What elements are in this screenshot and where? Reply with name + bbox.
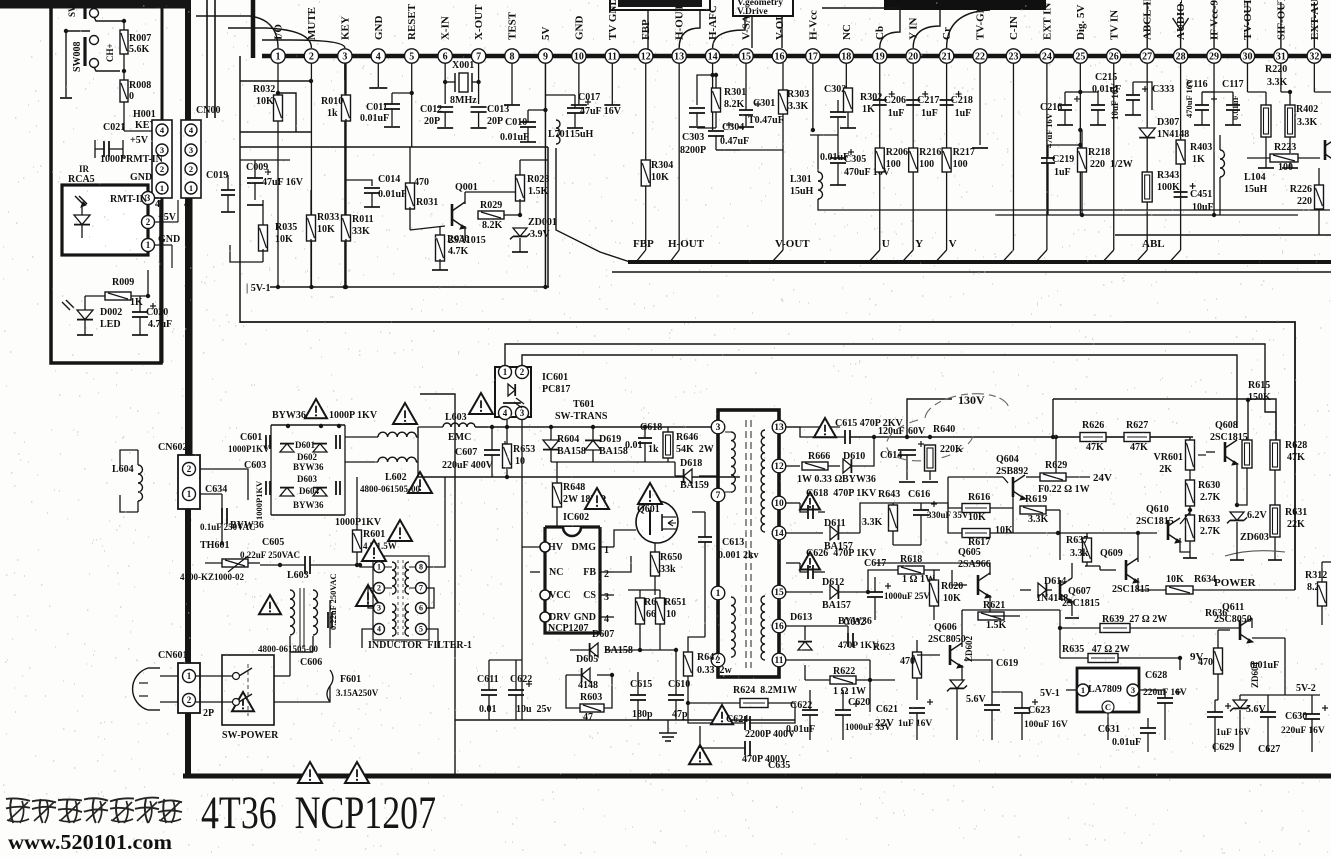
svg-text:+5V: +5V: [158, 212, 177, 223]
svg-text:1k: 1k: [327, 108, 338, 119]
svg-text:TH601: TH601: [200, 540, 229, 551]
svg-text:3: 3: [189, 145, 193, 155]
svg-text:C620: C620: [848, 697, 870, 708]
svg-text:C014: C014: [378, 174, 400, 185]
svg-text:R031: R031: [416, 197, 438, 208]
svg-text:+5V: +5V: [130, 135, 149, 146]
svg-text:3.9V: 3.9V: [530, 229, 551, 240]
svg-text:NC: NC: [841, 24, 853, 40]
svg-text:0.01uF: 0.01uF: [1250, 660, 1279, 671]
svg-text:MUTE: MUTE: [306, 7, 318, 40]
svg-text:F601: F601: [340, 674, 361, 685]
svg-text:1: 1: [377, 563, 381, 572]
svg-text:C218: C218: [951, 95, 973, 106]
svg-text:26: 26: [1109, 51, 1119, 62]
svg-text:180p: 180p: [632, 709, 653, 720]
svg-text:8: 8: [510, 51, 515, 62]
svg-text:C217: C217: [917, 95, 939, 106]
svg-text:C011: C011: [366, 102, 388, 113]
svg-text:24V: 24V: [1093, 472, 1112, 484]
svg-text:3: 3: [1131, 685, 1135, 695]
svg-text:1W 0.33 Ω: 1W 0.33 Ω: [797, 474, 842, 485]
svg-text:Q610: Q610: [1146, 504, 1169, 515]
svg-text:D610: D610: [843, 451, 865, 462]
svg-text:ABL: ABL: [1142, 238, 1165, 250]
svg-text:FB: FB: [583, 567, 596, 578]
svg-text:C333: C333: [1152, 84, 1174, 95]
svg-text:H001: H001: [133, 109, 156, 120]
svg-text:DRV: DRV: [549, 612, 571, 623]
svg-text:1: 1: [187, 489, 192, 499]
svg-text:TV GND: TV GND: [607, 0, 619, 40]
svg-text:IR: IR: [79, 164, 90, 174]
svg-text:32: 32: [1309, 51, 1319, 62]
svg-text:100: 100: [919, 159, 934, 170]
svg-text:R216: R216: [919, 147, 941, 158]
svg-text:1uF 16V: 1uF 16V: [1216, 728, 1250, 738]
svg-text:CH+: CH+: [105, 43, 115, 62]
svg-text:C603: C603: [244, 460, 266, 471]
svg-text:C616: C616: [908, 489, 930, 500]
svg-text:20: 20: [908, 51, 918, 62]
svg-text:15uH: 15uH: [790, 186, 814, 197]
svg-text:47uF 16V: 47uF 16V: [262, 177, 304, 188]
svg-text:10K: 10K: [651, 172, 669, 183]
svg-text:C021: C021: [103, 122, 125, 133]
svg-text:2: 2: [520, 367, 525, 377]
svg-text:100: 100: [886, 159, 901, 170]
svg-text:INDUCTOR FILTER-1: INDUCTOR FILTER-1: [368, 640, 472, 651]
svg-text:150K: 150K: [1248, 392, 1271, 403]
svg-text:3: 3: [377, 604, 381, 613]
svg-text:1: 1: [189, 183, 193, 193]
svg-text:10: 10: [666, 609, 676, 620]
svg-text:C206: C206: [884, 95, 906, 106]
svg-text:Q605: Q605: [958, 547, 981, 558]
svg-text:16: 16: [774, 622, 784, 632]
svg-text:20P: 20P: [424, 116, 440, 127]
svg-text:3.3K: 3.3K: [1028, 514, 1049, 525]
svg-text:R633: R633: [1198, 514, 1220, 525]
svg-text:13: 13: [674, 51, 684, 62]
svg-text:VR601: VR601: [1154, 452, 1183, 463]
svg-text:4T36 NCP1207: 4T36 NCP1207: [201, 787, 436, 839]
svg-text:Q611: Q611: [1222, 602, 1244, 613]
svg-text:C117: C117: [1222, 79, 1244, 90]
svg-text:TV IN: TV IN: [1108, 10, 1120, 40]
svg-text:R403: R403: [1190, 142, 1212, 153]
svg-text:C010: C010: [505, 117, 527, 128]
svg-text:C615: C615: [630, 679, 652, 690]
svg-text:T0.47uF: T0.47uF: [748, 115, 784, 126]
svg-text:1: 1: [1081, 685, 1085, 695]
svg-text:100uF 16V: 100uF 16V: [1024, 720, 1068, 730]
svg-text:Cb: Cb: [874, 26, 886, 40]
svg-text:D611: D611: [824, 518, 846, 529]
svg-text:C606: C606: [300, 657, 322, 668]
svg-text:C: C: [1105, 702, 1111, 712]
svg-text:C301: C301: [753, 98, 775, 109]
svg-text:D618: D618: [680, 458, 702, 469]
svg-text:BYW36: BYW36: [293, 462, 324, 472]
svg-text:3.3K: 3.3K: [1267, 77, 1288, 88]
svg-text:Q607: Q607: [1068, 586, 1091, 597]
svg-text:C605: C605: [262, 537, 284, 548]
svg-text:8.2K: 8.2K: [482, 220, 503, 231]
svg-text:C610: C610: [668, 679, 690, 690]
svg-text:4: 4: [155, 199, 160, 210]
svg-text:10K: 10K: [968, 512, 986, 523]
svg-text:4100-KZ1000-02: 4100-KZ1000-02: [180, 572, 244, 582]
svg-text:220uF 400V: 220uF 400V: [442, 460, 494, 471]
svg-text:RESET: RESET: [406, 3, 418, 40]
svg-text:R301: R301: [724, 87, 746, 98]
svg-text:47: 47: [583, 712, 593, 723]
svg-text:BA157: BA157: [822, 600, 851, 611]
svg-text:BA158: BA158: [557, 446, 586, 457]
svg-text:0.22uF 250VAC: 0.22uF 250VAC: [328, 573, 338, 630]
svg-text:R007: R007: [129, 33, 151, 44]
svg-text:C303: C303: [682, 132, 704, 143]
svg-text:3.3K: 3.3K: [788, 101, 809, 112]
svg-text:47uF 16V: 47uF 16V: [580, 106, 622, 117]
svg-text:10K: 10K: [317, 224, 335, 235]
svg-text:R217: R217: [953, 147, 975, 158]
svg-text:R304: R304: [651, 160, 673, 171]
svg-text:1: 1: [187, 671, 192, 681]
svg-text:R303: R303: [787, 89, 809, 100]
svg-text:Q604: Q604: [996, 454, 1019, 465]
svg-text:220 1/2W: 220 1/2W: [1090, 159, 1133, 170]
svg-text:0: 0: [129, 91, 134, 102]
svg-text:NC: NC: [549, 567, 563, 578]
svg-text:5V-2: 5V-2: [1296, 683, 1316, 694]
svg-text:3.15A250V: 3.15A250V: [336, 688, 379, 698]
svg-text:R223: R223: [1274, 142, 1296, 153]
svg-text:IC602: IC602: [563, 512, 589, 523]
svg-text:3.3k: 3.3k: [1070, 548, 1089, 559]
svg-text:220K: 220K: [940, 444, 963, 455]
svg-text:RCA5: RCA5: [68, 174, 95, 185]
svg-text:47p: 47p: [672, 709, 688, 720]
svg-text:Q608: Q608: [1215, 420, 1238, 431]
svg-text:10K: 10K: [1166, 574, 1184, 585]
svg-text:R616: R616: [968, 492, 990, 503]
svg-text:22: 22: [975, 51, 985, 62]
svg-text:D619: D619: [599, 434, 621, 445]
svg-text:R615: R615: [1248, 380, 1270, 391]
svg-text:R653: R653: [513, 444, 535, 455]
svg-text:30: 30: [1242, 51, 1252, 62]
svg-text:4: 4: [377, 625, 381, 634]
svg-text:2SC8050: 2SC8050: [1214, 614, 1252, 625]
svg-text:TEST: TEST: [507, 11, 519, 40]
svg-text:15uH: 15uH: [1244, 184, 1268, 195]
svg-text:L104: L104: [1244, 172, 1266, 183]
svg-text:GND: GND: [574, 612, 596, 623]
svg-text:8200P: 8200P: [680, 145, 706, 156]
svg-text:BYW36: BYW36: [230, 520, 264, 531]
svg-text:1uF 16V: 1uF 16V: [898, 719, 932, 729]
svg-text:R603: R603: [580, 692, 602, 703]
svg-text:5V-1: 5V-1: [1040, 688, 1060, 699]
svg-text:2SC8050: 2SC8050: [928, 634, 966, 645]
svg-text:PC817: PC817: [542, 384, 570, 395]
svg-text:www.520101.com: www.520101.com: [8, 830, 173, 854]
svg-text:R631: R631: [1285, 507, 1307, 518]
svg-text:18: 18: [841, 51, 851, 62]
svg-text:1000P1KV: 1000P1KV: [335, 517, 382, 528]
svg-text:0.01uF: 0.01uF: [1112, 737, 1141, 748]
svg-text:R630: R630: [1198, 480, 1220, 491]
svg-text:R302: R302: [860, 92, 882, 103]
svg-text:R628: R628: [1285, 440, 1307, 451]
svg-text:ZD602: ZD602: [964, 635, 974, 662]
svg-text:2P: 2P: [203, 708, 214, 719]
svg-text:10K: 10K: [995, 525, 1013, 536]
svg-text:1.5K: 1.5K: [986, 620, 1007, 631]
svg-text:C219: C219: [1052, 154, 1074, 165]
svg-text:2: 2: [309, 51, 314, 62]
svg-text:1: 1: [503, 367, 508, 377]
svg-text:L301: L301: [790, 174, 812, 185]
svg-text:Dig. 5V: Dig. 5V: [1075, 5, 1087, 41]
svg-text:BA158: BA158: [599, 446, 628, 457]
svg-text:R637: R637: [1066, 535, 1088, 546]
svg-text:C012: C012: [420, 104, 442, 115]
svg-text:0.01uF: 0.01uF: [1230, 95, 1240, 120]
svg-text:1000P1KV: 1000P1KV: [228, 444, 270, 454]
svg-text:5.6K: 5.6K: [129, 44, 150, 55]
svg-text:2200P 400V: 2200P 400V: [745, 729, 796, 740]
svg-text:V: V: [949, 238, 957, 250]
svg-text:FBP: FBP: [633, 238, 654, 250]
svg-text:24: 24: [1042, 51, 1052, 62]
svg-text:470: 470: [1198, 657, 1213, 668]
svg-text:CN602: CN602: [158, 442, 187, 453]
svg-text:2: 2: [187, 695, 192, 705]
svg-text:2K: 2K: [1159, 464, 1172, 475]
svg-text:C-IN: C-IN: [1008, 16, 1020, 40]
svg-text:22V: 22V: [875, 717, 894, 729]
svg-text:R604: R604: [557, 434, 579, 445]
svg-text:R030: R030: [447, 234, 469, 245]
svg-text:LED: LED: [100, 319, 121, 330]
svg-text:1uF: 1uF: [921, 108, 938, 119]
svg-text:RMT-IN: RMT-IN: [126, 154, 164, 165]
svg-text:D601: D601: [295, 440, 315, 450]
svg-text:5: 5: [419, 625, 423, 634]
svg-text:R623: R623: [873, 642, 895, 653]
svg-text:Q606: Q606: [934, 622, 957, 633]
svg-text:Q601: Q601: [637, 504, 660, 515]
svg-text:15: 15: [774, 588, 784, 598]
svg-text:2.7K: 2.7K: [1200, 526, 1221, 537]
svg-text:1.5K: 1.5K: [528, 186, 549, 197]
svg-text:GND: GND: [158, 234, 180, 245]
svg-text:D613: D613: [790, 612, 812, 623]
svg-text:L603: L603: [287, 570, 309, 581]
svg-text:R011: R011: [352, 214, 374, 225]
svg-text:C305: C305: [844, 154, 866, 165]
svg-text:5.6V: 5.6V: [966, 694, 987, 705]
svg-text:7: 7: [476, 51, 481, 62]
svg-text:C622: C622: [510, 674, 532, 685]
svg-text:6: 6: [443, 51, 448, 62]
svg-text:1uF: 1uF: [1054, 167, 1071, 178]
svg-text:Y IN: Y IN: [908, 17, 920, 40]
svg-text:D612: D612: [822, 577, 844, 588]
svg-text:IC601: IC601: [542, 372, 568, 383]
svg-text:ZD001: ZD001: [528, 217, 557, 228]
svg-text:10u 25v: 10u 25v: [516, 704, 552, 715]
svg-text:C631: C631: [1098, 724, 1120, 735]
svg-text:R028: R028: [527, 174, 549, 185]
svg-text:R218: R218: [1088, 147, 1110, 158]
svg-text:R627: R627: [1126, 420, 1148, 431]
svg-text:R646: R646: [676, 432, 698, 443]
svg-text:9: 9: [543, 51, 548, 62]
svg-text:16: 16: [774, 51, 784, 62]
svg-text:C635: C635: [768, 760, 790, 771]
svg-text:2.7K: 2.7K: [1200, 492, 1221, 503]
svg-text:25: 25: [1075, 51, 1085, 62]
svg-text:2: 2: [604, 569, 609, 580]
svg-text:4800-061505-00: 4800-061505-00: [258, 644, 318, 654]
svg-text:1K: 1K: [1192, 154, 1205, 165]
svg-text:29: 29: [1209, 51, 1219, 62]
svg-text:0.001 2kv: 0.001 2kv: [718, 550, 759, 561]
svg-text:1: 1: [716, 589, 721, 599]
svg-text:BYW36: BYW36: [293, 500, 324, 510]
svg-text:C623: C623: [1028, 705, 1050, 716]
svg-text:47K: 47K: [1287, 452, 1305, 463]
svg-text:3.3K: 3.3K: [1297, 117, 1318, 128]
svg-text:D605: D605: [576, 654, 598, 665]
svg-text:5.6V: 5.6V: [1246, 704, 1267, 715]
svg-text:0.47uF: 0.47uF: [720, 136, 749, 147]
svg-text:C614: C614: [880, 450, 902, 461]
svg-text:10: 10: [774, 499, 784, 509]
svg-text:D602: D602: [297, 452, 317, 462]
svg-text:H-Vcc: H-Vcc: [807, 10, 819, 40]
svg-text:0.01: 0.01: [625, 440, 643, 451]
svg-text:11: 11: [608, 51, 617, 62]
svg-text:BA159: BA159: [680, 480, 709, 491]
svg-text:U: U: [882, 238, 890, 250]
svg-text:GND: GND: [130, 172, 152, 183]
svg-text:C607: C607: [455, 447, 477, 458]
svg-text:6.2V: 6.2V: [1247, 510, 1268, 521]
svg-text:17: 17: [808, 51, 818, 62]
svg-text:10uF 16V: 10uF 16V: [1110, 83, 1120, 120]
svg-text:C017: C017: [578, 92, 600, 103]
svg-text:FBP: FBP: [640, 19, 652, 40]
svg-text:C020: C020: [146, 307, 168, 318]
svg-text:C116: C116: [1186, 79, 1208, 90]
svg-text:10: 10: [515, 456, 525, 467]
svg-text:220uF 16V: 220uF 16V: [1281, 726, 1325, 736]
svg-text:470: 470: [900, 656, 915, 667]
svg-text:33K: 33K: [352, 226, 370, 237]
svg-text:C628: C628: [1145, 670, 1167, 681]
svg-text:0.33 2w: 0.33 2w: [697, 665, 733, 676]
svg-text:C630: C630: [1285, 711, 1307, 722]
svg-text:1: 1: [146, 240, 151, 250]
svg-text:D604: D604: [299, 486, 319, 496]
svg-text:22K: 22K: [1287, 519, 1305, 530]
svg-text:R666: R666: [808, 451, 830, 462]
svg-text:3: 3: [342, 51, 347, 62]
svg-text:R008: R008: [129, 80, 151, 91]
svg-text:X001: X001: [452, 60, 474, 71]
svg-text:4: 4: [604, 614, 609, 625]
svg-text:1N4148: 1N4148: [1157, 129, 1189, 140]
svg-text:C019: C019: [206, 170, 228, 181]
svg-text:SW-POWER: SW-POWER: [222, 730, 279, 741]
svg-text:54K 2W: 54K 2W: [676, 444, 714, 455]
svg-text:CN601: CN601: [158, 650, 187, 661]
svg-text:5: 5: [409, 51, 414, 62]
svg-text:7: 7: [716, 491, 721, 501]
svg-text:10uF: 10uF: [1192, 202, 1214, 213]
svg-text:47K: 47K: [1130, 442, 1148, 453]
svg-text:10K: 10K: [943, 593, 961, 604]
svg-text:VCC: VCC: [549, 590, 571, 601]
svg-text:3: 3: [520, 408, 525, 418]
svg-text:T601: T601: [573, 399, 595, 410]
svg-text:POWER: POWER: [1214, 577, 1257, 589]
svg-text:C601: C601: [240, 432, 262, 443]
svg-text:R402: R402: [1296, 104, 1318, 115]
svg-text:13: 13: [774, 423, 784, 433]
svg-text:R032: R032: [253, 84, 275, 95]
svg-text:8: 8: [419, 563, 423, 572]
svg-text:R626: R626: [1082, 420, 1104, 431]
svg-text:1000uF 25V: 1000uF 25V: [884, 591, 930, 601]
svg-text:1000P 1KV: 1000P 1KV: [329, 410, 378, 421]
svg-text:1000P1KV: 1000P1KV: [254, 480, 264, 520]
svg-text:4148: 4148: [578, 680, 598, 691]
svg-text:47K: 47K: [1086, 442, 1104, 453]
svg-text:1uF: 1uF: [955, 108, 972, 119]
svg-text:14: 14: [774, 529, 784, 539]
svg-text:4: 4: [503, 408, 508, 418]
svg-text:15uH: 15uH: [570, 129, 594, 140]
svg-text:60V: 60V: [908, 426, 926, 437]
svg-text:2SA966: 2SA966: [958, 559, 991, 570]
svg-text:DMG: DMG: [572, 542, 597, 553]
svg-text:470: 470: [414, 177, 429, 188]
svg-text:1: 1: [160, 183, 164, 193]
svg-text:R010: R010: [321, 96, 343, 107]
svg-text:L701: L701: [548, 129, 570, 140]
svg-text:47uF 16V: 47uF 16V: [1044, 112, 1054, 148]
svg-text:C627: C627: [1258, 744, 1280, 755]
svg-text:1000P: 1000P: [100, 154, 126, 165]
svg-text:1k: 1k: [648, 444, 659, 455]
svg-text:4: 4: [184, 199, 189, 210]
svg-text:R629: R629: [1045, 460, 1067, 471]
svg-text:R029: R029: [480, 200, 502, 211]
svg-text:RMT-IN: RMT-IN: [110, 194, 148, 205]
svg-text:4800-061505-00: 4800-061505-00: [360, 484, 420, 494]
svg-text:C619: C619: [996, 658, 1018, 669]
svg-text:R033: R033: [317, 212, 339, 223]
svg-text:10K: 10K: [256, 96, 274, 107]
svg-text:10K: 10K: [275, 234, 293, 245]
svg-text:BYW36: BYW36: [272, 410, 306, 421]
